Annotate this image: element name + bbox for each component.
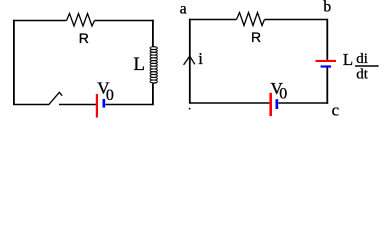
resistor R1 zigzag [67,14,95,27]
current arrow i [184,56,195,65]
stray dot below node below bottom-left corner [189,108,191,110]
wire left side [189,19,191,104]
battery V0 positive plate (red) [96,94,98,118]
svg-text:c: c [332,101,340,120]
fraction bar [355,65,379,67]
inductor L1 coil [150,47,157,83]
wire right side upper [152,20,154,47]
svg-text:0: 0 [279,86,287,103]
resistor R2 zigzag [237,13,265,26]
inductor emf element top plate (red) [316,60,337,62]
svg-text:L: L [133,54,145,75]
svg-text:0: 0 [106,87,114,104]
svg-text:dt: dt [356,67,369,83]
wire top-left segment [189,19,236,21]
svg-text:R: R [251,29,261,45]
svg-text:a: a [180,0,187,17]
inductor emf element bottom plate (blue) [321,65,332,67]
wire bottom-right segment [106,104,154,106]
wire left side [13,20,15,105]
wire bottom-left segment [13,104,48,106]
wire top-left segment [13,20,66,22]
svg-text:L: L [343,50,353,69]
svg-text:i: i [198,49,203,68]
wire right side lower [152,83,154,105]
wire bottom segment between switch and battery [59,104,96,106]
svg-text:b: b [323,0,331,16]
wire bottom-right segment [278,102,328,104]
battery V0 positive plate (red) [269,93,272,116]
wire top-right segment [95,20,154,22]
wire bottom-left segment [189,102,269,104]
battery V0 negative plate (blue) [276,99,279,109]
wire top-right segment [265,19,329,21]
switch S1 blade [49,92,63,105]
svg-text:R: R [79,30,89,46]
battery V0 negative plate (blue) [103,99,106,108]
wire right side lower [326,68,328,104]
svg-text:di: di [356,51,368,67]
wire right side upper [326,19,328,60]
